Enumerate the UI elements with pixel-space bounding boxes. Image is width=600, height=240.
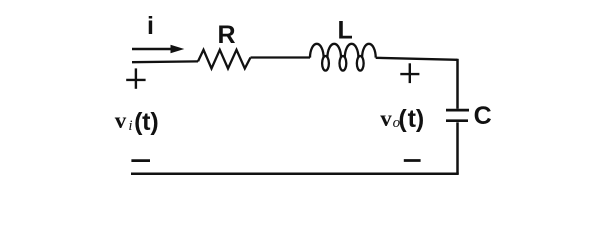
plus sign left [126, 68, 145, 88]
capacitor C1 top plate [446, 109, 469, 112]
plus sign right [400, 63, 419, 83]
resistor R1 [198, 50, 251, 69]
label vi(t) [115, 108, 159, 136]
label vo(t) [380, 105, 424, 133]
svg-text:): ) [416, 105, 424, 133]
svg-text:): ) [150, 108, 158, 136]
wire L to corner [376, 58, 458, 60]
minus sign left [131, 159, 150, 162]
svg-text:v: v [115, 108, 127, 133]
wire bottom [131, 173, 459, 176]
minus sign right [404, 159, 421, 162]
svg-text:C: C [474, 102, 492, 130]
svg-text:L: L [338, 17, 353, 45]
svg-text:R: R [217, 21, 235, 49]
wire top-left [132, 60, 198, 63]
capacitor C1 bottom plate [446, 119, 468, 122]
wire right vertical top [456, 59, 459, 109]
wire R to L [251, 56, 311, 58]
svg-text:(: ( [398, 105, 407, 133]
svg-text:i: i [128, 118, 132, 134]
inductor L1 [310, 44, 376, 71]
svg-text:v: v [380, 106, 392, 131]
svg-text:i: i [147, 12, 154, 40]
wire right vertical bottom [456, 122, 459, 174]
current arrow i [132, 45, 184, 53]
